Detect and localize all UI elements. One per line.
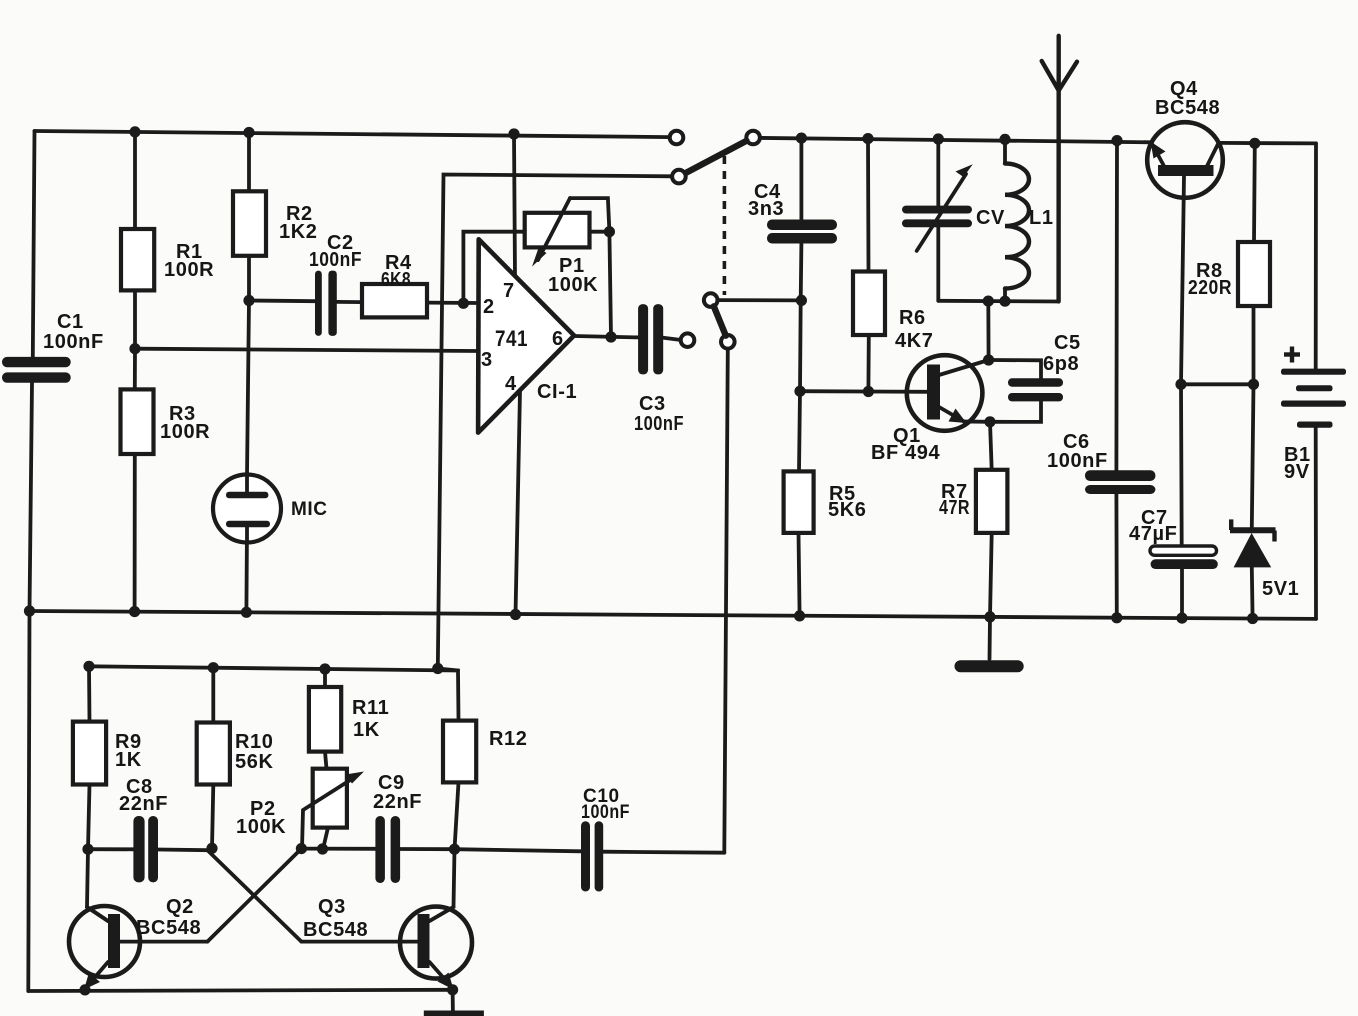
transistor Q1 BF494 — [907, 355, 983, 431]
resistor R8 — [1238, 242, 1270, 306]
switch S1a — [670, 131, 684, 145]
resistor R3 — [121, 389, 154, 454]
wire top supply rail left segment — [35, 131, 670, 137]
wire oscillator top — [89, 666, 458, 670]
svg-text:100nF: 100nF — [1047, 450, 1108, 472]
svg-text:100K: 100K — [236, 816, 286, 838]
capacitor C6 — [1085, 470, 1155, 481]
wire R9 bottom — [88, 785, 90, 850]
svg-text:6: 6 — [552, 328, 564, 350]
svg-text:3n3: 3n3 — [748, 198, 784, 220]
zener diode D1 5V1 — [1234, 533, 1272, 567]
wire C5 bottom link — [990, 401, 1041, 422]
svg-text:47µF: 47µF — [1129, 523, 1177, 545]
wire R2 bottom to node — [247, 256, 251, 301]
ground — [955, 660, 1024, 672]
wire R4 to pin2 — [427, 301, 479, 305]
wire left edge C1 top — [33, 131, 35, 357]
wire P1 wiper bracket — [570, 198, 609, 232]
resistor R1 — [121, 229, 154, 290]
svg-text:R12: R12 — [489, 728, 528, 750]
junction dots — [129, 126, 140, 137]
resistor R5 — [784, 471, 814, 533]
resistor R4 — [362, 284, 427, 317]
wire tank bottom — [938, 299, 1058, 304]
svg-text:100nF: 100nF — [309, 249, 362, 271]
wire R6 bottom — [867, 335, 871, 392]
capacitor C9 — [375, 816, 385, 883]
svg-text:3: 3 — [481, 349, 493, 371]
wire C5 top link — [989, 360, 1041, 378]
capacitor C2 — [315, 271, 322, 336]
wire R3 top — [133, 349, 137, 390]
wire R11 to P2 — [325, 752, 327, 769]
wire Q3 base — [301, 940, 417, 944]
wire C2 to R4 — [337, 300, 362, 304]
wire zener bottom to ground — [1250, 567, 1255, 618]
wire P1 left leg — [463, 232, 524, 304]
wire R6 top — [866, 139, 870, 272]
wire top supply rail right segment — [1219, 141, 1316, 145]
svg-text:6K8: 6K8 — [381, 269, 411, 291]
wire node R2 to C2 — [249, 299, 315, 304]
svg-text:1K: 1K — [115, 749, 142, 771]
wire cross couple A — [207, 849, 301, 942]
wire P1 right leg to output — [590, 232, 612, 337]
svg-text:220R: 220R — [1188, 277, 1232, 299]
wire R7 bottom to ground — [990, 533, 992, 617]
wire left edge down to bottom rail — [28, 611, 29, 991]
capacitor C5 — [1008, 378, 1063, 386]
antenna — [1042, 61, 1077, 91]
svg-text:6p8: 6p8 — [1043, 353, 1079, 375]
svg-text:1K: 1K — [353, 719, 380, 741]
wire opamp output to C3 — [574, 336, 638, 337]
wire S1b pole down to C10 — [724, 349, 728, 853]
wire Q4 base down — [1181, 176, 1184, 384]
wire R11 top — [323, 669, 327, 687]
wire R5 bottom to ground — [799, 533, 800, 616]
wire C7 top — [1179, 384, 1183, 546]
wire L1 bottom stub — [1003, 289, 1007, 302]
resistor R12 — [443, 721, 476, 783]
svg-text:L1: L1 — [1029, 207, 1054, 229]
svg-text:Q3: Q3 — [318, 896, 346, 918]
resistor R11 — [309, 687, 341, 752]
resistor R10 — [197, 723, 230, 785]
resistor R2 — [233, 191, 266, 256]
svg-text:R6: R6 — [899, 307, 926, 329]
svg-text:1K2: 1K2 — [279, 221, 318, 243]
wire Q3 emitter to module — [451, 990, 455, 1012]
svg-text:Q2: Q2 — [166, 896, 194, 918]
wire C6 top — [1115, 141, 1119, 471]
wire ground rail — [30, 611, 1317, 619]
svg-text:5V1: 5V1 — [1262, 578, 1299, 600]
wire R1 top — [133, 132, 137, 229]
wire C8 left — [88, 847, 133, 851]
svg-text:BC548: BC548 — [303, 919, 368, 941]
wire Q2 base — [120, 940, 207, 944]
svg-text:2: 2 — [483, 296, 495, 318]
svg-text:7: 7 — [503, 280, 515, 302]
wire R10 top — [211, 668, 215, 723]
capacitor C8 — [133, 816, 144, 882]
svg-text:4: 4 — [505, 373, 517, 395]
capacitor C4 — [767, 220, 837, 231]
wire Q2 collector — [87, 849, 108, 921]
op-amp U1 741 — [478, 239, 574, 432]
svg-text:5K6: 5K6 — [828, 499, 867, 521]
wire 741 pin4 to ground — [516, 391, 521, 615]
wire C9 left — [301, 847, 375, 851]
svg-text:100R: 100R — [160, 421, 210, 443]
wire R2 top — [247, 133, 251, 192]
wire R5 top — [799, 391, 800, 471]
wire C4 bottom to Q1 base rail — [800, 244, 801, 392]
wire Q1 base — [800, 389, 927, 393]
wire R12 top — [438, 669, 459, 721]
wire MIC bottom to ground — [244, 527, 248, 612]
resistor R7 — [976, 470, 1008, 533]
svg-text:100nF: 100nF — [634, 413, 684, 435]
microphone MIC — [213, 475, 281, 543]
wire R12 bottom — [455, 782, 459, 849]
potentiometer P2 — [313, 769, 347, 828]
wire left edge C1 bottom to ground — [30, 383, 33, 611]
svg-text:22nF: 22nF — [119, 793, 168, 815]
wire CV top — [936, 139, 940, 206]
wire node R1R3 to pin3 — [135, 349, 479, 351]
capacitor C3 — [638, 304, 648, 374]
wire R7 top — [990, 422, 992, 470]
wire C7 bottom to ground — [1180, 569, 1184, 618]
svg-text:9V: 9V — [1284, 461, 1310, 483]
svg-text:CI-1: CI-1 — [537, 381, 577, 403]
wire R1 bottom to node — [133, 290, 137, 348]
svg-text:C3: C3 — [639, 393, 666, 415]
svg-text:47R: 47R — [939, 497, 970, 519]
svg-text:100K: 100K — [548, 274, 598, 296]
switch S1b — [681, 333, 695, 347]
svg-text:BF 494: BF 494 — [871, 442, 940, 464]
svg-text:BC548: BC548 — [1155, 97, 1220, 119]
wire C9 right — [400, 847, 454, 851]
capacitor C10 — [581, 821, 590, 891]
wire bottom rail — [28, 990, 454, 991]
wire C10 right — [603, 852, 724, 853]
svg-text:BC548: BC548 — [136, 917, 201, 939]
svg-text:100nF: 100nF — [43, 331, 104, 353]
transistor Q4 BC548 — [1147, 122, 1223, 198]
svg-text:741: 741 — [495, 326, 528, 351]
svg-text:4K7: 4K7 — [895, 330, 934, 352]
svg-text:C5: C5 — [1054, 332, 1081, 354]
svg-text:CV: CV — [976, 207, 1005, 229]
wire battery negative drop — [1314, 428, 1318, 619]
svg-text:MIC: MIC — [291, 499, 328, 520]
wire base to R8 bottom — [1181, 382, 1254, 386]
svg-text:R11: R11 — [352, 697, 389, 719]
wire L1 top stub — [1003, 139, 1007, 163]
wire Q3 collector — [430, 849, 455, 921]
wire C8 right — [158, 848, 207, 853]
transistor Q2 BC548 — [69, 906, 140, 977]
wire C6 bottom — [1115, 494, 1119, 618]
variable capacitor CV — [902, 206, 972, 214]
wire R3 bottom to ground — [133, 454, 137, 612]
wire battery positive drop — [1314, 143, 1318, 368]
wire R9 top — [87, 666, 91, 721]
bottom connector stub — [424, 1011, 484, 1016]
svg-text:C1: C1 — [57, 311, 84, 333]
wire C4 top — [800, 138, 804, 219]
wire R10 bottom — [212, 785, 213, 849]
resistor R6 — [853, 272, 885, 336]
transistor Q3 BC548 — [400, 907, 472, 979]
resistor R9 — [73, 722, 106, 785]
potentiometer P1 — [525, 213, 590, 248]
capacitor C1 — [2, 357, 71, 367]
svg-text:100R: 100R — [164, 259, 214, 281]
inductor L1 — [1005, 164, 1029, 289]
switch gang dashed link — [723, 156, 727, 295]
wire antenna mast — [1056, 36, 1060, 302]
wire switch S1a lower throw feed — [438, 175, 672, 669]
wire R8 bottom — [1252, 306, 1256, 384]
svg-text:100nF: 100nF — [581, 802, 630, 823]
wire to C10 — [455, 849, 582, 851]
capacitor C7 electrolytic — [1150, 546, 1217, 555]
svg-text:R10: R10 — [235, 731, 274, 753]
wire node R2 down to MIC — [247, 301, 249, 475]
wire zener top — [1252, 384, 1254, 527]
wire top supply rail middle segment — [761, 138, 1152, 142]
wire P2 bottom — [323, 828, 328, 849]
wire ground symbol stem — [988, 617, 992, 659]
wire C3 to terminal — [663, 338, 679, 340]
wire cross couple B — [207, 850, 301, 941]
svg-text:22nF: 22nF — [373, 791, 422, 813]
wire collector drop Q1 — [986, 301, 990, 360]
wire S1b to C4 node — [718, 298, 801, 302]
wire R8 top to rail — [1252, 143, 1257, 242]
wire CV bottom — [936, 227, 940, 300]
wire 741 pin7 supply — [514, 134, 515, 277]
battery B1 — [1281, 369, 1346, 375]
svg-text:56K: 56K — [235, 751, 274, 773]
